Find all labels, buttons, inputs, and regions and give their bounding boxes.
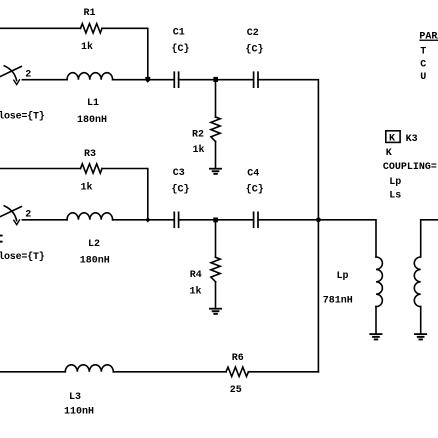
svg-text:Lp: Lp [389, 177, 401, 188]
svg-text:C3: C3 [173, 168, 185, 179]
svg-text:25: 25 [230, 385, 242, 396]
svg-text:C2: C2 [247, 28, 259, 39]
svg-text:{C}: {C} [172, 43, 190, 55]
svg-text:K: K [386, 148, 392, 159]
svg-text:COUPLING=: COUPLING= [383, 162, 437, 173]
svg-text:Lp: Lp [337, 271, 349, 282]
svg-text:C4: C4 [247, 168, 259, 179]
svg-text:C: C [420, 59, 426, 70]
svg-text:{C}: {C} [246, 44, 264, 56]
svg-text:180nH: 180nH [80, 256, 110, 267]
svg-text:Ls: Ls [389, 190, 401, 201]
svg-text:C1: C1 [173, 28, 185, 39]
svg-text:1k: 1k [81, 182, 93, 194]
svg-text:lose={T}: lose={T} [0, 251, 45, 263]
svg-text:U: U [420, 72, 426, 83]
svg-text:PARAMETERS:: PARAMETERS: [419, 32, 438, 43]
svg-text:R3: R3 [84, 149, 96, 160]
svg-text:R4: R4 [190, 270, 202, 281]
svg-text:K: K [389, 134, 395, 145]
svg-text:K3: K3 [406, 134, 418, 145]
svg-text:180nH: 180nH [77, 115, 107, 126]
svg-text:R6: R6 [232, 353, 244, 364]
svg-text:{C}: {C} [172, 183, 190, 195]
svg-text:110nH: 110nH [64, 407, 94, 418]
svg-text:2: 2 [25, 70, 31, 81]
svg-text:L1: L1 [87, 98, 99, 109]
svg-text:R2: R2 [192, 129, 204, 140]
svg-text:T: T [420, 47, 426, 58]
svg-text:L3: L3 [69, 392, 81, 403]
svg-text:L2: L2 [88, 239, 100, 250]
svg-text:1k: 1k [190, 286, 202, 298]
svg-text:2: 2 [25, 210, 31, 221]
svg-text:781nH: 781nH [323, 295, 353, 306]
svg-text:{C}: {C} [246, 183, 264, 195]
svg-text:1k: 1k [81, 41, 93, 53]
svg-text:R1: R1 [84, 8, 96, 19]
svg-text:lose={T}: lose={T} [0, 111, 45, 123]
svg-text:1k: 1k [193, 144, 205, 156]
